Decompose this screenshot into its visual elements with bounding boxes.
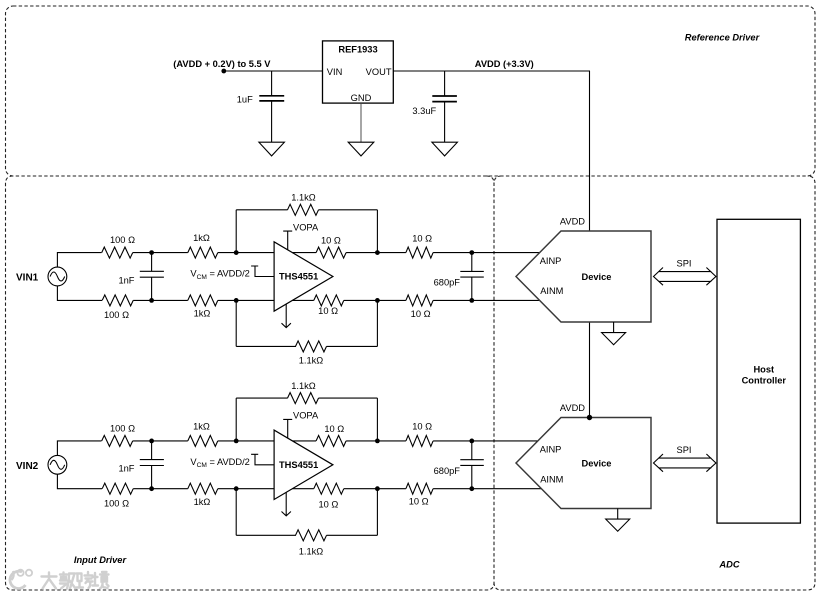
svg-text:1.1kΩ: 1.1kΩ bbox=[299, 547, 324, 557]
resistor 10 Ohm second (bottom) bbox=[406, 483, 433, 494]
svg-text:VOPA: VOPA bbox=[293, 411, 319, 421]
capacitor 680pF bbox=[460, 253, 484, 301]
wire 1k to input node (bottom) bbox=[218, 299, 236, 301]
svg-text:SPI: SPI bbox=[677, 445, 692, 455]
supply VOPA stem and bar bbox=[283, 419, 292, 438]
wire to filter node (top) bbox=[433, 440, 472, 442]
ground arrow below op-amp bbox=[282, 304, 291, 328]
svg-text:Host: Host bbox=[753, 365, 774, 375]
wire VCM tee and lead bbox=[251, 266, 274, 277]
wire AINM lead into Device 1 bbox=[472, 299, 540, 301]
svg-text:1.1kΩ: 1.1kΩ bbox=[291, 193, 316, 203]
resistor 10 Ohm first (bottom) bbox=[314, 483, 344, 494]
wire 3.3uF bottom stem bbox=[444, 102, 446, 143]
wire 1k to input node (top) bbox=[218, 440, 236, 442]
wire 100ohm to node (top) bbox=[133, 440, 152, 442]
wire output node to second 10ohm (top) bbox=[377, 252, 406, 254]
capacitor 1nF bbox=[140, 253, 164, 301]
ground under device 2 bbox=[606, 519, 630, 531]
resistor 1k (bottom) bbox=[188, 483, 218, 494]
IC Host Controller box bbox=[717, 219, 800, 523]
wire input node to opamp (top) bbox=[236, 440, 274, 442]
wire REF1933 GND stem bbox=[360, 103, 362, 142]
wire AINM lead into Device 2 bbox=[472, 488, 542, 490]
wire feedback bottom left horizontal bbox=[236, 534, 296, 536]
svg-text:AVDD: AVDD bbox=[560, 217, 585, 227]
svg-text:10 Ω: 10 Ω bbox=[321, 236, 341, 246]
node dot opamp -input bbox=[234, 298, 239, 303]
resistor 10 Ohm first (bottom) bbox=[314, 295, 344, 306]
svg-text:1kΩ: 1kΩ bbox=[194, 497, 211, 507]
capacitor 680pF bbox=[460, 441, 484, 489]
wire feedback bottom left horizontal bbox=[236, 345, 296, 347]
svg-text:100 Ω: 100 Ω bbox=[104, 310, 129, 320]
node dot opamp +input bbox=[234, 250, 239, 255]
wire AINP lead into Device 2 bbox=[472, 440, 538, 442]
ground under 3.3uF bbox=[432, 142, 458, 156]
node dot 680pF top bbox=[469, 439, 474, 444]
wire to filter node (top) bbox=[433, 252, 472, 254]
node dot opamp -input bbox=[234, 486, 239, 491]
SPI bus double arrow device 2 bbox=[654, 454, 716, 472]
node dot 680pF top bbox=[469, 250, 474, 255]
resistor 1.1k feedback top bbox=[288, 204, 319, 215]
resistor 10 Ohm second (top) bbox=[406, 247, 433, 258]
node dot top of 1nF bbox=[149, 439, 154, 444]
node AVDD junction on Device 2 bbox=[587, 415, 592, 420]
wire feedback top left vertical bbox=[235, 210, 237, 253]
svg-text:Device: Device bbox=[582, 458, 612, 468]
wire source to top rail bbox=[57, 253, 101, 268]
wire to filter node (bottom) bbox=[433, 299, 472, 301]
svg-text:10 Ω: 10 Ω bbox=[318, 500, 338, 510]
wire source to bottom rail bbox=[57, 286, 102, 301]
node dot bottom of 1nF bbox=[149, 486, 154, 491]
wire 1uF top stem bbox=[271, 71, 273, 96]
capacitor C1 1uF plates bbox=[259, 96, 284, 101]
resistor 100 Ohm (top) bbox=[102, 247, 133, 258]
resistor 100 Ohm (bottom) bbox=[102, 295, 133, 306]
svg-text:REF1933: REF1933 bbox=[338, 44, 377, 54]
resistor 10 Ohm second (bottom) bbox=[406, 295, 433, 306]
svg-text:1nF: 1nF bbox=[118, 464, 134, 474]
resistor 10 Ohm first (top) bbox=[316, 247, 346, 258]
svg-text:100 Ω: 100 Ω bbox=[104, 498, 129, 508]
svg-text:AVDD: AVDD bbox=[560, 403, 585, 413]
svg-text:SPI: SPI bbox=[677, 259, 692, 269]
svg-text:Controller: Controller bbox=[742, 376, 787, 386]
wire AVDD trunk vertical from reference output down to Device 2 bbox=[589, 71, 591, 418]
svg-text:100 Ω: 100 Ω bbox=[110, 235, 135, 245]
resistor 1.1k feedback top bbox=[288, 393, 319, 404]
wire feedback top right vertical bbox=[376, 398, 378, 441]
node input junction dot bbox=[221, 69, 226, 74]
capacitor 1nF bbox=[140, 441, 164, 489]
svg-text:AINM: AINM bbox=[540, 475, 563, 485]
wire input node to opamp (top) bbox=[236, 252, 274, 254]
ground under device 1 bbox=[602, 333, 626, 345]
svg-text:AINM: AINM bbox=[540, 286, 563, 296]
supply VOPA stem and bar bbox=[283, 231, 292, 250]
wire feedback top right vertical bbox=[376, 210, 378, 253]
svg-text:1uF: 1uF bbox=[237, 95, 253, 105]
wire output node to second 10ohm (top) bbox=[377, 440, 406, 442]
resistor 1.1k feedback bottom bbox=[296, 341, 327, 352]
source VIN2 sine generator circle bbox=[48, 455, 67, 474]
resistor 1k (bottom) bbox=[188, 295, 218, 306]
node dot 680pF bottom bbox=[469, 486, 474, 491]
svg-text:10 Ω: 10 Ω bbox=[412, 233, 432, 243]
wire 1k to input node (top) bbox=[218, 252, 236, 254]
node dot output top bbox=[375, 439, 380, 444]
node dot output top bbox=[375, 250, 380, 255]
wire reference input to VIN pin of REF1933 bbox=[223, 70, 322, 72]
SPI bus double arrow device 1 bbox=[654, 268, 716, 286]
wire ground stem device 1 bbox=[613, 322, 615, 333]
wire feedback bottom right vertical bbox=[376, 300, 378, 346]
svg-text:VIN: VIN bbox=[327, 67, 343, 77]
wire node to 1k (top) bbox=[152, 252, 188, 254]
resistor 100 Ohm (top) bbox=[102, 435, 133, 446]
svg-text:Input Driver: Input Driver bbox=[74, 555, 128, 565]
wire source to bottom rail bbox=[57, 474, 102, 489]
wire opamp output to 10ohm (top) bbox=[292, 440, 316, 442]
watermark logo swirl bbox=[10, 570, 32, 589]
wire opamp output to 10ohm (bottom) bbox=[292, 488, 313, 490]
wire 10ohm to output node (bottom) bbox=[344, 488, 378, 490]
wire feedback top right horizontal bbox=[319, 209, 378, 211]
svg-text:AINP: AINP bbox=[540, 256, 562, 266]
svg-text:VIN1: VIN1 bbox=[16, 273, 39, 284]
op-amp U2 THS4551 triangle bbox=[274, 430, 333, 499]
wire feedback bottom right horizontal bbox=[327, 345, 378, 347]
ground under 1uF bbox=[259, 142, 285, 156]
node dot output bottom bbox=[375, 298, 380, 303]
svg-text:10 Ω: 10 Ω bbox=[412, 422, 432, 432]
resistor 10 Ohm second (top) bbox=[406, 435, 433, 446]
svg-text:VOUT: VOUT bbox=[366, 67, 392, 77]
svg-text:Device: Device bbox=[582, 272, 612, 282]
wire feedback bottom right horizontal bbox=[327, 534, 378, 536]
wire feedback top left vertical bbox=[235, 398, 237, 441]
svg-text:Reference Driver: Reference Driver bbox=[685, 33, 761, 43]
wire output node to second 10ohm (bottom) bbox=[377, 488, 406, 490]
wire VOUT to AVDD corner bbox=[393, 70, 590, 72]
resistor 1k (top) bbox=[188, 435, 218, 446]
wire node to 1k (bottom) bbox=[152, 488, 188, 490]
svg-text:1.1kΩ: 1.1kΩ bbox=[291, 381, 316, 391]
ADC symbol Device 2 pentagon bbox=[516, 418, 651, 509]
svg-text:3.3uF: 3.3uF bbox=[412, 106, 436, 116]
wire node to 1k (top) bbox=[152, 440, 188, 442]
wire source to top rail bbox=[57, 441, 101, 456]
wire input node to opamp (bottom) bbox=[236, 299, 274, 301]
ADC region box (dashed) bbox=[494, 176, 815, 590]
node dot 680pF bottom bbox=[469, 298, 474, 303]
svg-text:1.1kΩ: 1.1kΩ bbox=[299, 356, 324, 366]
wire feedback top right horizontal bbox=[319, 397, 378, 399]
wire feedback top left horizontal bbox=[236, 397, 287, 399]
svg-text:10 Ω: 10 Ω bbox=[318, 306, 338, 316]
wire opamp output to 10ohm (bottom) bbox=[292, 299, 313, 301]
svg-text:(AVDD + 0.2V) to 5.5 V: (AVDD + 0.2V) to 5.5 V bbox=[173, 59, 271, 69]
source VIN1 sine generator circle bbox=[48, 267, 67, 286]
wire 10ohm to output node (top) bbox=[346, 252, 377, 254]
svg-text:1kΩ: 1kΩ bbox=[194, 309, 211, 319]
svg-text:680pF: 680pF bbox=[434, 278, 461, 288]
svg-text:1kΩ: 1kΩ bbox=[193, 421, 210, 431]
wire node to 1k (bottom) bbox=[152, 299, 188, 301]
svg-text:THS4551: THS4551 bbox=[279, 460, 318, 470]
ground under REF1933 bbox=[348, 142, 374, 156]
resistor 100 Ohm (bottom) bbox=[102, 483, 133, 494]
Reference Driver region box (dashed) bbox=[6, 6, 816, 176]
resistor 1k (top) bbox=[188, 247, 218, 258]
wire ground stem device 2 bbox=[617, 509, 619, 520]
watermark text 大数跨境 (approximated strokes) bbox=[42, 572, 109, 589]
wire 3.3uF top stem bbox=[444, 71, 446, 96]
node dot top of 1nF bbox=[149, 250, 154, 255]
node dot opamp +input bbox=[234, 439, 239, 444]
wire 1uF bottom stem bbox=[271, 101, 273, 142]
wire opamp output to 10ohm (top) bbox=[292, 252, 316, 254]
wire 1k to input node (bottom) bbox=[218, 488, 236, 490]
wire 100ohm to node (bottom) bbox=[133, 488, 151, 490]
IC U1 REF1933 box bbox=[323, 41, 394, 103]
svg-text:ADC: ADC bbox=[718, 559, 739, 569]
svg-text:100 Ω: 100 Ω bbox=[110, 423, 135, 433]
ground arrow below op-amp bbox=[282, 492, 291, 516]
resistor 1.1k feedback bottom bbox=[296, 530, 327, 541]
wire to filter node (bottom) bbox=[433, 488, 472, 490]
node dot bottom of 1nF bbox=[149, 298, 154, 303]
svg-text:AINP: AINP bbox=[540, 444, 562, 454]
capacitor C2 3.3uF plates bbox=[432, 96, 457, 102]
svg-text:10 Ω: 10 Ω bbox=[411, 309, 431, 319]
wire feedback top left horizontal bbox=[236, 209, 287, 211]
svg-text:10 Ω: 10 Ω bbox=[324, 424, 344, 434]
svg-text:GND: GND bbox=[351, 93, 372, 103]
svg-text:1nF: 1nF bbox=[118, 275, 134, 285]
wire feedback bottom right vertical bbox=[376, 489, 378, 536]
svg-text:VOPA: VOPA bbox=[293, 222, 319, 232]
svg-text:AVDD (+3.3V): AVDD (+3.3V) bbox=[475, 59, 534, 69]
wire AINP lead into Device 1 bbox=[472, 252, 540, 254]
svg-text:1kΩ: 1kΩ bbox=[193, 233, 210, 243]
svg-text:VIN2: VIN2 bbox=[16, 461, 39, 472]
node dot output bottom bbox=[375, 486, 380, 491]
wire feedback bottom left vertical bbox=[235, 300, 237, 346]
wire 100ohm to node (top) bbox=[133, 252, 152, 254]
Input Driver region box (dashed) bbox=[6, 176, 495, 590]
ADC symbol Device 1 pentagon bbox=[516, 231, 651, 322]
svg-text:THS4551: THS4551 bbox=[279, 272, 318, 282]
resistor 10 Ohm first (top) bbox=[316, 435, 346, 446]
wire 10ohm to output node (bottom) bbox=[344, 299, 378, 301]
svg-text:680pF: 680pF bbox=[434, 466, 461, 476]
svg-text:10 Ω: 10 Ω bbox=[409, 497, 429, 507]
wire output node to second 10ohm (bottom) bbox=[377, 299, 406, 301]
wire input node to opamp (bottom) bbox=[236, 488, 274, 490]
op-amp U1 THS4551 triangle bbox=[274, 242, 333, 311]
wire 10ohm to output node (top) bbox=[346, 440, 377, 442]
wire 100ohm to node (bottom) bbox=[133, 299, 151, 301]
wire feedback bottom left vertical bbox=[235, 489, 237, 536]
wire VCM tee and lead bbox=[251, 454, 274, 465]
